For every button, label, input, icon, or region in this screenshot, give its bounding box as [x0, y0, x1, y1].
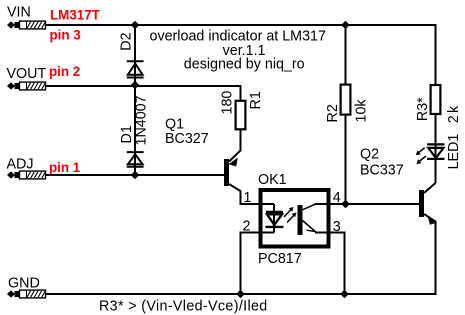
svg-text:VIN: VIN	[7, 5, 31, 21]
svg-text:2: 2	[243, 219, 251, 235]
wire R2 column	[345, 25, 347, 204]
wire R3 column	[435, 84, 437, 183]
svg-text:3: 3	[333, 219, 341, 235]
svg-text:LM317T: LM317T	[50, 8, 101, 23]
wire pin2 of OK1	[241, 233, 275, 295]
svg-text:BC337: BC337	[360, 163, 404, 179]
node VIN/R2 junction	[341, 21, 350, 30]
wire diode column	[134, 25, 136, 175]
svg-text:1N4007: 1N4007	[134, 95, 150, 145]
transistor Q1	[224, 159, 229, 186]
svg-text:PC817: PC817	[258, 251, 302, 267]
wire pin3 of OK1	[315, 233, 345, 295]
terminal GND plug	[7, 290, 46, 298]
svg-text:2k: 2k	[446, 103, 462, 123]
transistor Q2	[419, 190, 424, 217]
svg-text:180: 180	[219, 91, 235, 115]
wire R1 to Q1 emitter	[229, 130, 241, 162]
wire GND rail	[46, 293, 437, 295]
wire pin4 to Q2 base	[315, 203, 419, 205]
Q2 emitter wire	[424, 214, 436, 294]
node ADJ/D1 junction	[131, 171, 140, 180]
svg-text:pin 1: pin 1	[49, 160, 81, 175]
LED LED1	[427, 144, 445, 159]
svg-text:1: 1	[244, 190, 252, 206]
node VOUT/D2/D1 junction	[131, 81, 140, 90]
svg-text:BC327: BC327	[165, 131, 209, 147]
OK1 collector diagonal + pin4 wire	[303, 204, 317, 210]
diode D2	[127, 61, 144, 77]
svg-text:R3*: R3*	[415, 97, 431, 121]
OK1 internal LED	[266, 204, 284, 233]
diode D1	[127, 152, 144, 167]
svg-text:R2: R2	[325, 104, 341, 122]
Q2 collector wire	[424, 183, 436, 193]
svg-text:ADJ: ADJ	[7, 157, 34, 173]
svg-text:LED1: LED1	[446, 134, 462, 170]
wire VOUT rail	[46, 86, 241, 100]
svg-text:pin 3: pin 3	[50, 28, 81, 43]
node pin2/GND junction	[236, 290, 245, 299]
Q1 emitter arrow	[229, 158, 238, 167]
OK1 phototransistor	[298, 205, 303, 235]
wire ADJ rail	[46, 174, 225, 176]
terminal VIN plug	[7, 21, 46, 29]
OK1 light arrows	[284, 207, 297, 223]
resistor R1	[236, 101, 246, 130]
svg-text:pin 2: pin 2	[49, 64, 80, 79]
optocoupler OK1 box	[261, 190, 329, 247]
svg-text:GND: GND	[8, 276, 40, 292]
wire VIN rail	[46, 25, 436, 84]
resistor R2	[341, 85, 351, 115]
svg-text:10k: 10k	[354, 99, 370, 123]
svg-text:4: 4	[333, 190, 341, 206]
LED1 light arrows	[416, 148, 426, 165]
Q2 emitter arrow	[428, 216, 437, 225]
svg-text:OK1: OK1	[258, 172, 287, 188]
svg-text:D2: D2	[119, 32, 135, 50]
node VIN/D2 junction	[131, 21, 140, 30]
node R2/pin4 junction	[341, 200, 350, 209]
svg-text:R3* > (Vin-Vled-Vce)/Iled: R3* > (Vin-Vled-Vce)/Iled	[99, 299, 268, 315]
node pin3/GND junction	[340, 290, 349, 299]
svg-text:VOUT: VOUT	[7, 66, 47, 82]
svg-text:designed by niq_ro: designed by niq_ro	[184, 57, 305, 73]
terminal ADJ plug	[7, 171, 46, 179]
terminal VOUT plug	[7, 82, 46, 90]
svg-text:D1: D1	[119, 125, 135, 143]
resistor R3	[431, 85, 441, 114]
OK1 emitter diagonal + arrow	[303, 221, 316, 232]
svg-text:R1: R1	[248, 91, 264, 109]
Q1 collector wire	[229, 184, 274, 204]
svg-text:Q2: Q2	[360, 147, 379, 163]
